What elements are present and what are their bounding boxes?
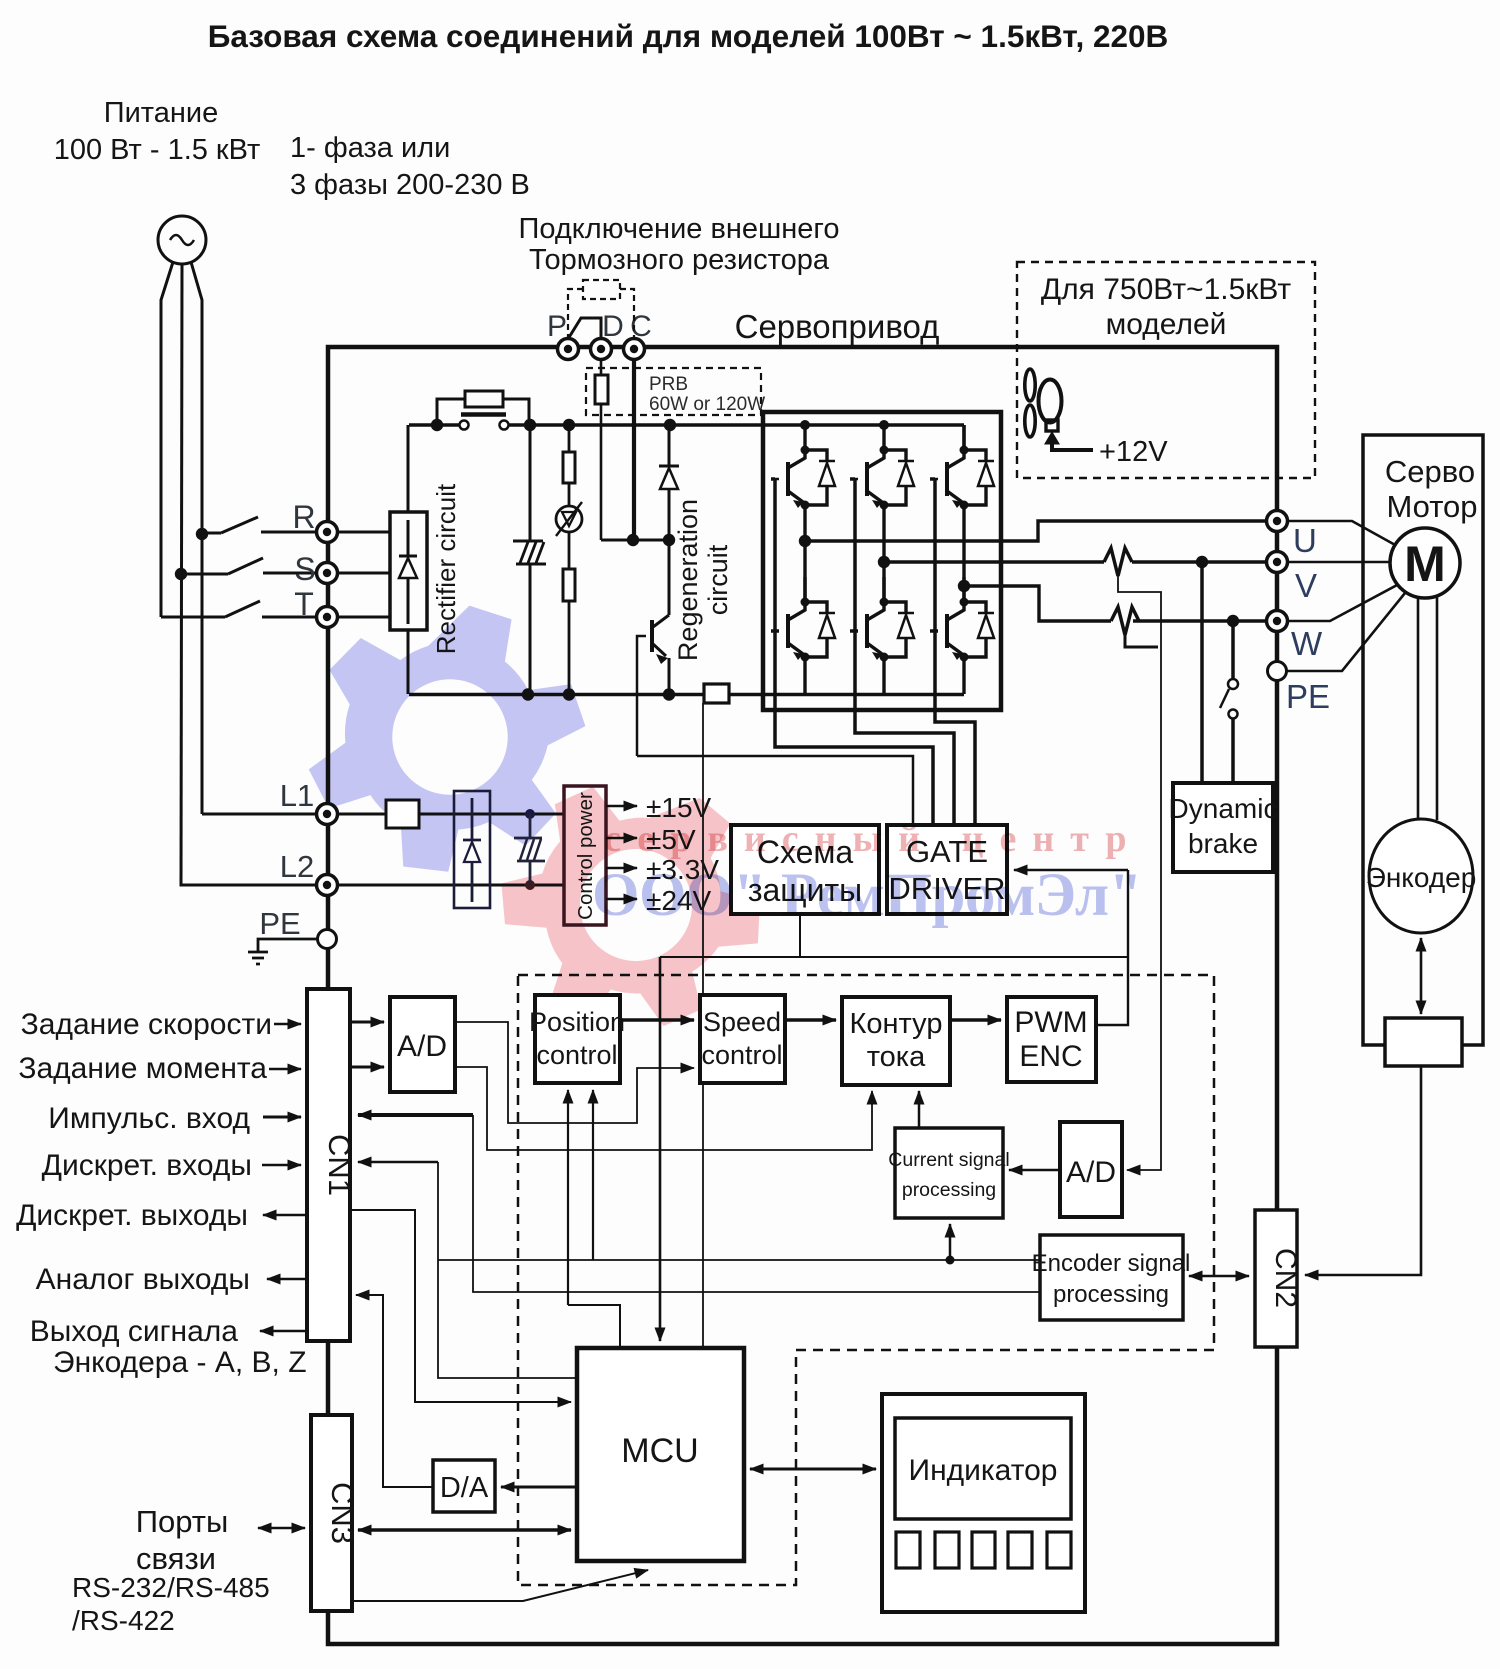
wire +24V arrow (606, 898, 637, 901)
node W midpoint (958, 580, 970, 592)
wire encoder proc to CN2 (double arrow) (1189, 1275, 1249, 1278)
svg-text:PRB: PRB (649, 374, 688, 395)
svg-text:Серво: Серво (1385, 454, 1475, 489)
switch dynamic brake contact (1220, 621, 1238, 783)
node bus junction left (431, 419, 443, 431)
svg-text:A/D: A/D (397, 1030, 447, 1063)
wire regen gate to gate driver (637, 756, 913, 825)
gate driver box U3 (887, 825, 1007, 914)
wire W sensor tap (1125, 635, 1158, 647)
terminal L1 (317, 804, 338, 825)
svg-text:Аналог выходы: Аналог выходы (36, 1263, 250, 1296)
encoder connector block (1385, 1018, 1462, 1066)
wire +3.3V arrow (606, 867, 637, 870)
node bus junction regen (664, 419, 676, 431)
node bus junction right (524, 419, 536, 431)
wire rectifier output to DC+ bus (407, 425, 410, 512)
svg-text:R: R (292, 499, 315, 535)
wire phase R feed (191, 262, 202, 814)
terminal T (317, 607, 338, 628)
indicator display (895, 1418, 1071, 1519)
D/A converter (433, 1460, 495, 1512)
dynamic brake box (1173, 783, 1273, 872)
svg-text:processing: processing (902, 1179, 996, 1201)
wire D line upper (600, 359, 603, 375)
svg-text:Энкодер: Энкодер (1366, 862, 1477, 893)
svg-text:CN3: CN3 (325, 1482, 360, 1544)
wire MCU to indicator (double arrow) (750, 1468, 876, 1471)
terminal D (591, 339, 612, 360)
wire motor to encoder shaft (1418, 596, 1437, 820)
svg-text:processing: processing (1053, 1281, 1169, 1308)
wire speed ref input arrow (274, 1023, 301, 1026)
current signal processing box (895, 1128, 1003, 1218)
terminal PE left (318, 930, 337, 949)
speed control box (700, 995, 785, 1083)
svg-text:Regeneration: Regeneration (673, 499, 703, 661)
wire V phase column (882, 505, 885, 694)
wire A/D to current loop (455, 1067, 872, 1150)
svg-text:S: S (294, 551, 315, 587)
wire feedback to current proc (949, 1224, 952, 1260)
capacitor bank C1 (III symbol) (513, 425, 546, 694)
wire PWM to gate driver (1014, 870, 1128, 1025)
svg-text:W: W (1291, 625, 1323, 662)
node DC- junction cap (522, 688, 534, 700)
svg-text:Задание скорости: Задание скорости (21, 1008, 272, 1041)
control rectifier diode box (454, 791, 490, 908)
transistor Q7 regen IGBT (637, 540, 669, 756)
wire W phase output (964, 586, 1268, 621)
wire S to rectifier (337, 572, 390, 575)
ground symbol (248, 939, 317, 964)
IGBT bridge module box (763, 412, 1001, 710)
svg-text:Сервопривод: Сервопривод (735, 308, 940, 345)
motor M1 (1390, 528, 1460, 598)
wire protection line to MCU (659, 957, 662, 1341)
shunt resistor on DC- bus (704, 684, 729, 703)
wire lower gates bundle W (930, 479, 975, 825)
node feedback junction (946, 1256, 955, 1265)
svg-text:Индикатор: Индикатор (909, 1454, 1058, 1487)
svg-text:Rectifier circuit: Rectifier circuit (431, 483, 461, 654)
switch P-D jumper (568, 318, 601, 339)
terminal C (624, 339, 645, 360)
current sensor W (zigzag) (1111, 607, 1139, 635)
wire encoder ABZ feedback (473, 1115, 1040, 1292)
svg-text:L1: L1 (280, 778, 314, 813)
node bus tap U (800, 420, 810, 430)
wire position to speed (620, 1018, 694, 1022)
svg-text:Подключение внешнего: Подключение внешнего (519, 213, 840, 245)
svg-text:M: M (1404, 536, 1446, 592)
svg-text:PE: PE (259, 906, 300, 941)
svg-text:Тормозного резистора: Тормозного резистора (529, 244, 830, 276)
A/D converter current (1060, 1122, 1122, 1217)
svg-text:CN1: CN1 (322, 1134, 357, 1196)
wire T to rectifier (337, 616, 390, 619)
svg-text:MCU: MCU (621, 1432, 698, 1470)
wire rectifier negative to DC- bus (407, 630, 410, 694)
terminal U (1267, 511, 1288, 532)
wire V phase output (884, 560, 1268, 563)
wire phase T feed (161, 262, 173, 617)
svg-text:Импульс. вход: Импульс. вход (48, 1102, 250, 1135)
node bus junction varistor (563, 419, 575, 431)
PRB dashed box (586, 368, 761, 415)
dashed digital control boundary (518, 975, 1214, 1585)
svg-text:V: V (1295, 567, 1317, 604)
svg-text:Speed: Speed (703, 1007, 781, 1037)
wire +15V arrow (606, 805, 637, 808)
svg-text:моделей: моделей (1106, 308, 1227, 341)
svg-text:Position: Position (529, 1007, 625, 1037)
svg-text:3 фазы 200-230 В: 3 фазы 200-230 В (290, 169, 530, 201)
position control box (535, 995, 620, 1083)
svg-text:A/D: A/D (1066, 1156, 1116, 1189)
terminal L2 (317, 875, 338, 896)
external brake resistor (dashed) (583, 280, 620, 299)
PWM ENC box (1007, 997, 1096, 1082)
svg-text:control: control (701, 1040, 782, 1070)
svg-text:D/A: D/A (440, 1472, 489, 1504)
A/D converter input (390, 997, 455, 1092)
wire current proc to current loop (918, 1091, 921, 1128)
svg-text:Для 750Вт~1.5кВт: Для 750Вт~1.5кВт (1041, 273, 1292, 306)
wire regen node D-C (601, 539, 669, 542)
node regen C junction (627, 534, 639, 546)
svg-text:T: T (294, 586, 314, 622)
svg-text:circuit: circuit (703, 544, 733, 615)
regeneration diode D2 (659, 425, 679, 540)
control power box U4 (564, 786, 606, 925)
wire pulse input arrow (263, 1116, 301, 1119)
wire L1 feed from phase R (202, 813, 317, 816)
capacitor C2 (III symbol) (514, 814, 545, 885)
wire A/D to speed control (455, 1022, 694, 1123)
svg-text:Дискрет. входы: Дискрет. входы (42, 1149, 252, 1182)
fuse F1 (386, 800, 419, 828)
svg-text:L2: L2 (280, 849, 314, 884)
indicator panel box (882, 1394, 1085, 1612)
encoder E1 (1369, 819, 1473, 933)
svg-text:1- фаза или: 1- фаза или (290, 132, 450, 164)
wire encoder to connector (double arrow) (1420, 938, 1423, 1014)
svg-text:ООО" РемПромЭл": ООО" РемПромЭл" (592, 862, 1142, 929)
wire V sensor tap (1118, 576, 1161, 1170)
svg-text:сервисный центр: сервисный центр (604, 818, 1143, 860)
wire L2 feed from phase S (181, 884, 317, 885)
wire analog outputs arrow (267, 1278, 307, 1281)
wire discrete outputs arrow (263, 1214, 307, 1217)
svg-text:Питание: Питание (104, 97, 218, 129)
switch SA1 phase R (202, 517, 317, 533)
svg-text:Dynamic: Dynamic (1169, 793, 1278, 824)
varistor and resistor string (556, 425, 582, 694)
wire shunt sense to MCU (702, 703, 704, 1348)
wire fuse to diode box (419, 813, 564, 816)
wire comm ports double arrow (258, 1527, 305, 1530)
wire dashed brake resistor leads (568, 289, 634, 338)
terminal W (1267, 611, 1288, 632)
resistor PRB brake (595, 375, 608, 404)
svg-text:PWM: PWM (1014, 1006, 1087, 1039)
wire phase S feed (181, 264, 182, 884)
svg-text:Дискрет. выходы: Дискрет. выходы (16, 1199, 248, 1232)
svg-text:control: control (536, 1040, 617, 1070)
wire C line (DC+) (632, 359, 636, 540)
wire current loop to PWM (950, 1018, 1001, 1022)
node regen diode junction (663, 534, 675, 546)
dashed box Для 750Вт~1.5кВт моделей (1017, 262, 1315, 478)
wire CN1 to A/D ch1 (350, 1021, 384, 1024)
node control cap bottom (525, 880, 535, 890)
node DC- junction varistor (563, 688, 575, 700)
current loop box (842, 997, 950, 1085)
wire discrete inputs arrow (262, 1164, 301, 1167)
transistor Q4 lower U cell (771, 577, 835, 662)
svg-text:60W or 120W: 60W or 120W (649, 394, 765, 415)
svg-text:тока: тока (867, 1041, 926, 1073)
switch SA3 phase T (161, 601, 317, 617)
AC source G1 (158, 216, 206, 264)
wire feedback to position control (592, 1090, 594, 1260)
fan +12V arrow (1052, 444, 1093, 450)
wire PE to motor (1287, 593, 1405, 671)
current sensor V (zigzag) (1104, 548, 1132, 576)
wire U to motor (1288, 521, 1397, 546)
relay contact on bus (460, 421, 469, 430)
node control cap top (525, 809, 535, 819)
node W output junction (1227, 615, 1239, 627)
inrush resistor bypass (437, 391, 529, 425)
wire V to motor (1288, 561, 1391, 564)
svg-text:Задание момента: Задание момента (18, 1052, 267, 1085)
node phase R junction (196, 528, 208, 540)
wire MCU to D/A (501, 1486, 577, 1489)
connector CN3 (311, 1415, 352, 1611)
watermark blue gear (279, 571, 610, 907)
transistor Q2 upper V cell (850, 425, 914, 510)
wire U phase column (803, 505, 806, 694)
transistor Q5 lower V cell (850, 577, 914, 662)
svg-text:Контур: Контур (850, 1008, 943, 1040)
switch SA2 phase S (181, 558, 317, 574)
wire D/A to CN1 (356, 1295, 433, 1487)
node V output junction (1196, 556, 1208, 568)
wire encoder signal output arrow (260, 1330, 307, 1333)
svg-text:U: U (1293, 522, 1317, 559)
wire U phase output (805, 521, 1268, 541)
svg-text:/RS-422: /RS-422 (72, 1605, 175, 1636)
svg-text:100 Вт - 1.5 кВт: 100 Вт - 1.5 кВт (54, 134, 261, 166)
wire discrete in distribution (358, 1161, 438, 1164)
svg-text:CN2: CN2 (1269, 1248, 1302, 1308)
transistor Q1 upper U cell (771, 425, 835, 510)
transistor Q3 upper W cell (930, 425, 994, 510)
node phase S junction (175, 568, 187, 580)
fan icon (1025, 369, 1062, 437)
wire protection to gate line (660, 914, 1128, 957)
terminal P (558, 339, 579, 360)
servo motor box (1363, 435, 1483, 1045)
protection circuit box U2 (731, 825, 879, 914)
wire R to rectifier (337, 531, 390, 534)
wire encoder cable to CN2 (1305, 1066, 1421, 1275)
terminal S (317, 563, 338, 584)
encoder signal processing box (1040, 1235, 1183, 1320)
svg-text:Current signal: Current signal (888, 1149, 1009, 1171)
wire CN1 mid distribution (350, 1210, 571, 1402)
svg-text:Энкодера - А, В, Z: Энкодера - А, В, Z (53, 1346, 307, 1379)
svg-text:связи: связи (136, 1541, 216, 1576)
svg-text:Порты: Порты (136, 1504, 229, 1539)
wire to position control input (567, 1090, 569, 1305)
node regen emitter on DC- (663, 688, 675, 700)
wire L1 to fuse (337, 813, 386, 816)
wire +5V arrow (606, 837, 637, 840)
wire A/D to current signal proc (1009, 1169, 1060, 1172)
terminal V (1267, 552, 1288, 573)
wire CN1 to A/D ch2 (350, 1066, 384, 1069)
wire W to motor (1288, 584, 1399, 621)
svg-text:Базовая схема соединений для м: Базовая схема соединений для моделей 100… (208, 18, 1169, 54)
wire L2 to diode box (337, 884, 564, 887)
wire lower gates bundle V (850, 479, 954, 825)
wire pulse path to CN1 (358, 1113, 473, 1117)
wire speed to current loop (785, 1018, 836, 1022)
wire CN3 to MCU (double arrow) (358, 1528, 571, 1532)
wire lower gates bundle U (771, 479, 933, 825)
watermark pink gear (456, 729, 806, 1080)
wire DC- bus (409, 693, 964, 697)
svg-text:Encoder signal: Encoder signal (1032, 1250, 1191, 1277)
terminal PE (1268, 662, 1287, 681)
wire DC+ bus (409, 423, 964, 427)
node bus tap V (879, 420, 889, 430)
wire W phase column (962, 425, 965, 694)
svg-text:Выход сигнала: Выход сигнала (30, 1315, 239, 1348)
svg-text:RS-232/RS-485: RS-232/RS-485 (72, 1572, 270, 1603)
svg-text:ENC: ENC (1019, 1040, 1082, 1073)
MCU box U5 (577, 1348, 744, 1561)
svg-text:Мотор: Мотор (1386, 489, 1477, 524)
wire V to dynamic brake (1200, 562, 1204, 783)
indicator buttons (896, 1532, 1071, 1568)
node V midpoint (878, 556, 890, 568)
rectifier circuit block (390, 512, 427, 630)
wire CN3 serial to MCU (352, 1570, 648, 1601)
svg-text:PE: PE (1286, 678, 1330, 715)
terminal R (317, 522, 338, 543)
connector CN1 (307, 989, 350, 1341)
connector CN2 (1255, 1210, 1297, 1347)
transistor Q6 lower W cell (930, 577, 994, 662)
svg-text:+12V: +12V (1099, 436, 1168, 468)
servo drive enclosure box (328, 347, 1277, 1644)
node U midpoint (799, 535, 811, 547)
svg-text:brake: brake (1188, 828, 1258, 859)
wire D line to regen node (600, 404, 603, 540)
wire encoder feedback distribution (438, 1259, 1040, 1261)
wire torque ref input arrow (269, 1068, 301, 1071)
